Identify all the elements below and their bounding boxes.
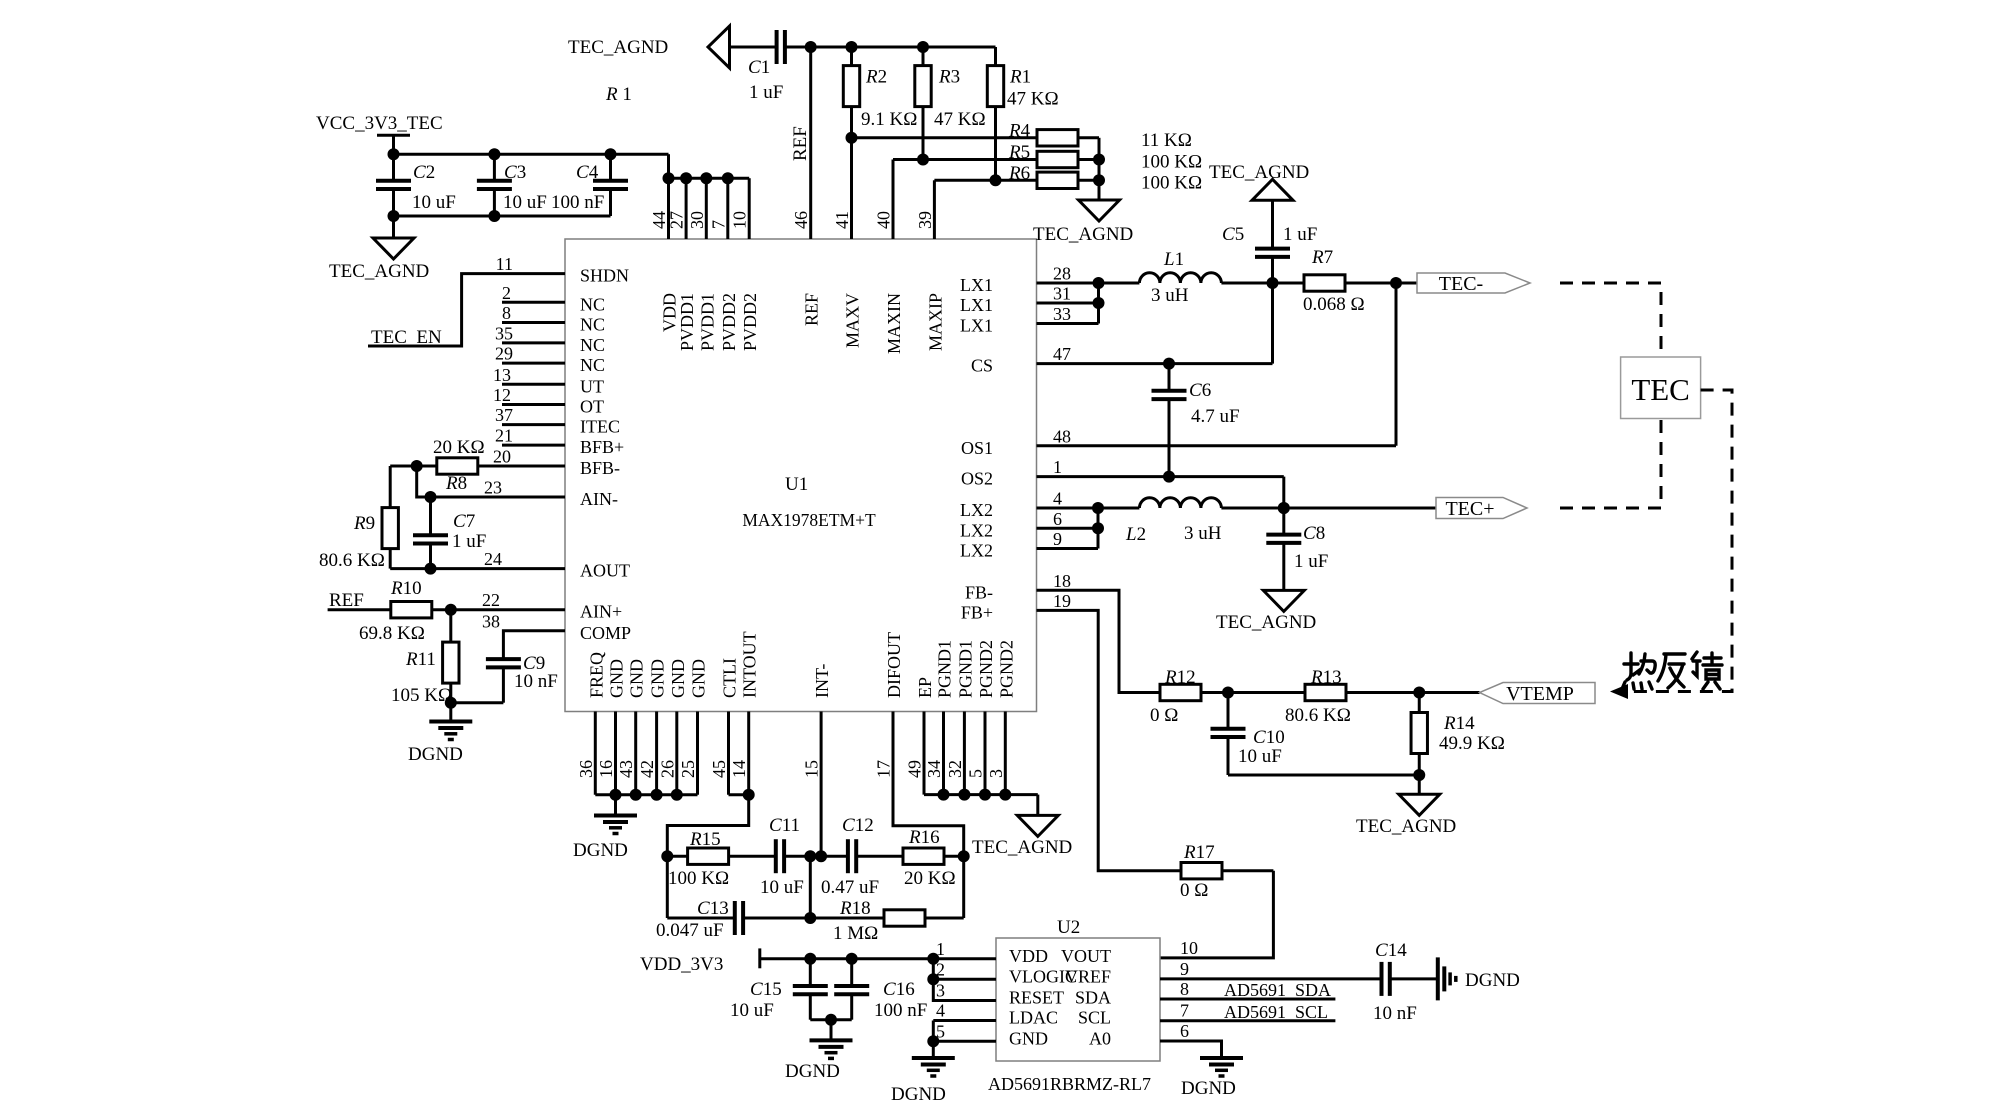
svg-text:10 uF: 10 uF [1238, 746, 1282, 767]
wire [451, 701, 504, 704]
svg-text:VCC_3V3_TEC: VCC_3V3_TEC [316, 113, 443, 134]
svg-text:C12: C12 [842, 815, 874, 836]
svg-text:R17: R17 [1183, 842, 1215, 863]
wire [390, 465, 437, 468]
svg-text:4: 4 [936, 1001, 945, 1021]
svg-text:DGND: DGND [891, 1084, 946, 1105]
junction [999, 789, 1011, 801]
wire U1 top pin [726, 178, 729, 239]
svg-text:35: 35 [495, 323, 513, 343]
resistor R18 [884, 910, 925, 926]
svg-text:100 KΩ: 100 KΩ [1141, 152, 1202, 173]
wire [1390, 977, 1438, 980]
wire dashed TEC+ to TEC [1560, 419, 1661, 509]
wire [1098, 138, 1101, 200]
svg-text:C11: C11 [769, 815, 800, 836]
capacitor C12 [846, 839, 850, 873]
wire U1 left pin stub [502, 383, 565, 386]
junction [1163, 358, 1175, 370]
svg-text:6: 6 [1180, 1021, 1189, 1041]
svg-text:31: 31 [1053, 284, 1071, 304]
junction [488, 148, 500, 160]
svg-text:R18: R18 [839, 898, 871, 919]
wire U1 gnd pin [594, 712, 597, 795]
wire [856, 855, 903, 858]
junction [388, 148, 400, 160]
wire [743, 917, 884, 920]
capacitor C2 [376, 179, 411, 183]
junction [445, 697, 457, 709]
svg-text:30: 30 [687, 211, 707, 229]
capacitor C15 [793, 984, 828, 988]
capacitor C16 [834, 984, 869, 988]
wire pin39 [933, 180, 936, 239]
wire FB- pin18 [1037, 590, 1161, 692]
svg-text:43: 43 [616, 760, 636, 778]
svg-text:AIN-: AIN- [580, 489, 618, 509]
svg-text:100 KΩ: 100 KΩ [668, 868, 729, 889]
svg-text:47 KΩ: 47 KΩ [1007, 89, 1059, 110]
svg-text:TEC_AGND: TEC_AGND [1209, 162, 1309, 183]
wire AIN+ pin22 [432, 608, 565, 611]
capacitor C6 [1152, 389, 1187, 393]
wire [850, 994, 853, 1019]
svg-text:5: 5 [966, 769, 986, 778]
wire U1 pgnd pin [984, 712, 987, 795]
svg-text:22: 22 [482, 590, 500, 610]
wire [809, 856, 812, 918]
junction [979, 789, 991, 801]
svg-text:SHDN: SHDN [580, 266, 629, 286]
TEC module box [1621, 357, 1701, 419]
svg-text:14: 14 [729, 760, 749, 778]
svg-text:CTLI: CTLI [720, 658, 740, 698]
wire OS2 pin1 [1037, 475, 1284, 478]
svg-text:80.6 KΩ: 80.6 KΩ [319, 550, 385, 571]
wire U2 pin6 [1160, 1041, 1222, 1058]
svg-text:10: 10 [730, 211, 750, 229]
svg-text:LDAC: LDAC [1009, 1008, 1058, 1028]
wire BFB- pin20 [478, 465, 565, 468]
svg-text:10 uF: 10 uF [730, 1000, 774, 1021]
svg-text:C2: C2 [413, 162, 435, 183]
wire pin40 [892, 160, 895, 240]
wire [1271, 257, 1274, 283]
resistor R15 [688, 848, 729, 864]
svg-text:9.1 KΩ: 9.1 KΩ [861, 109, 917, 130]
junction [700, 172, 712, 184]
junction [630, 789, 642, 801]
wire OS1 pin48 [1037, 444, 1397, 447]
junction [1267, 277, 1279, 289]
svg-text:PGND2: PGND2 [976, 640, 996, 698]
svg-text:100 nF: 100 nF [551, 192, 604, 213]
junction [488, 210, 500, 222]
svg-text:42: 42 [637, 760, 657, 778]
wire VDD bus [669, 177, 750, 180]
svg-text:GND: GND [648, 659, 668, 698]
wire [1345, 282, 1417, 285]
svg-text:21: 21 [495, 426, 513, 446]
junction [605, 148, 617, 160]
ground DGND [810, 1038, 853, 1042]
wire [1168, 399, 1171, 477]
junction [722, 172, 734, 184]
junction [1278, 502, 1290, 514]
svg-text:INT-: INT- [812, 664, 832, 698]
svg-text:69.8 KΩ: 69.8 KΩ [359, 623, 425, 644]
svg-text:49.9 KΩ: 49.9 KΩ [1439, 733, 1505, 754]
wire U2 pin5 [933, 1021, 996, 1042]
wire VCC bus [394, 153, 669, 156]
wire U1 top pin [667, 178, 670, 239]
svg-text:R3: R3 [938, 67, 960, 88]
svg-text:TEC: TEC [1631, 372, 1690, 407]
wire U2 pin2 [933, 978, 996, 981]
node TEC- [1417, 273, 1530, 293]
svg-text:LX1: LX1 [960, 275, 993, 295]
op-amp U1 MAX1978ETM+T body [565, 239, 1037, 712]
svg-text:TEC_AGND: TEC_AGND [568, 37, 668, 58]
wire [392, 189, 395, 216]
svg-text:DGND: DGND [573, 840, 628, 861]
svg-text:C1: C1 [748, 57, 770, 78]
wire [429, 544, 432, 569]
wire [502, 667, 505, 702]
svg-text:C13: C13 [697, 898, 729, 919]
wire PGND bus [924, 793, 1038, 796]
svg-text:39: 39 [915, 211, 935, 229]
wire [1271, 200, 1274, 248]
svg-text:R14: R14 [1443, 713, 1475, 734]
svg-text:47: 47 [1053, 344, 1071, 364]
wire CS pin47 [1037, 362, 1273, 365]
svg-text:3 uH: 3 uH [1184, 523, 1222, 544]
svg-text:FB-: FB- [965, 582, 993, 602]
wire [1282, 543, 1285, 591]
svg-text:GND: GND [689, 659, 709, 698]
svg-text:0.068 Ω: 0.068 Ω [1303, 294, 1365, 315]
wire AOUT pin24 [390, 567, 565, 570]
svg-text:24: 24 [484, 549, 502, 569]
svg-text:DGND: DGND [1465, 970, 1520, 991]
junction [846, 41, 858, 53]
wire [730, 46, 777, 49]
junction [1093, 174, 1105, 186]
svg-text:C16: C16 [883, 979, 915, 1000]
svg-text:GND: GND [627, 659, 647, 698]
junction [1413, 687, 1425, 699]
svg-text:1 uF: 1 uF [452, 531, 486, 552]
svg-text:PGND1: PGND1 [955, 640, 975, 698]
svg-text:OS2: OS2 [961, 469, 993, 489]
svg-text:PGND1: PGND1 [935, 640, 955, 698]
junction [743, 789, 755, 801]
svg-text:100 KΩ: 100 KΩ [1141, 173, 1202, 194]
wire LX1 pin33 [1037, 322, 1099, 325]
svg-text:105 KΩ: 105 KΩ [391, 685, 452, 706]
svg-text:PVDD1: PVDD1 [677, 293, 697, 351]
svg-text:16: 16 [596, 760, 616, 778]
wire TEC_EN to SHDN [368, 274, 565, 346]
wire [1097, 508, 1100, 549]
svg-text:1 uF: 1 uF [749, 82, 783, 103]
wire U1 left pin stub [502, 444, 565, 447]
wire [729, 855, 776, 858]
resistor R13 [1305, 684, 1346, 700]
svg-text:R15: R15 [689, 829, 721, 850]
svg-text:41: 41 [832, 211, 852, 229]
wire U1 gnd pin [614, 712, 617, 795]
wire [1036, 795, 1039, 816]
svg-text:LX2: LX2 [960, 520, 993, 540]
svg-text:10 uF: 10 uF [412, 192, 456, 213]
svg-text:0.47 uF: 0.47 uF [821, 877, 879, 898]
svg-text:UT: UT [580, 376, 604, 396]
ground DGND [594, 814, 637, 818]
wire U2 pin9 VREF [1160, 977, 1382, 980]
svg-text:AD5691RBRMZ-RL7: AD5691RBRMZ-RL7 [988, 1074, 1151, 1094]
capacitor C1 [775, 30, 779, 64]
wire [429, 497, 432, 535]
svg-text:NC: NC [580, 294, 605, 314]
svg-text:MAXV: MAXV [843, 293, 863, 348]
svg-text:TEC_AGND: TEC_AGND [972, 837, 1072, 858]
svg-text:R8: R8 [445, 473, 467, 494]
arrowhead thermal feedback [1610, 684, 1628, 699]
svg-text:34: 34 [924, 760, 944, 778]
wire [609, 154, 612, 181]
svg-text:VDD: VDD [1009, 946, 1048, 966]
junction [661, 850, 673, 862]
svg-text:A0: A0 [1089, 1028, 1111, 1048]
svg-text:R9: R9 [353, 513, 375, 534]
junction [651, 789, 663, 801]
svg-text:10 nF: 10 nF [1373, 1003, 1417, 1024]
resistor R5 [1037, 151, 1078, 167]
svg-text:C5: C5 [1222, 224, 1244, 245]
junction [804, 912, 816, 924]
svg-text:40: 40 [874, 211, 894, 229]
junction [927, 973, 939, 985]
wire U1 left pin stub [502, 341, 565, 344]
wire DIFOUT loop [893, 712, 964, 919]
svg-text:100 nF: 100 nF [874, 1000, 927, 1021]
svg-text:9: 9 [1180, 959, 1189, 979]
wire [944, 855, 964, 858]
wire [609, 189, 612, 216]
svg-text:12: 12 [493, 385, 511, 405]
svg-text:23: 23 [484, 478, 502, 498]
svg-text:LX1: LX1 [960, 316, 993, 336]
wire [1201, 691, 1305, 694]
wire [389, 549, 392, 569]
wire VDD_3V3 rail [760, 957, 996, 960]
junction [958, 850, 970, 862]
svg-text:SCL: SCL [1078, 1008, 1111, 1028]
ground DGND [1200, 1056, 1243, 1060]
junction [425, 491, 437, 503]
wire [1097, 283, 1100, 324]
svg-text:INTOUT: INTOUT [740, 631, 760, 698]
wire R4 row [852, 136, 1038, 139]
wire LX2 pin6 [1037, 527, 1099, 530]
svg-text:REF: REF [790, 126, 811, 161]
svg-text:18: 18 [1053, 571, 1071, 591]
capacitor C11 [774, 839, 778, 873]
svg-text:19: 19 [1053, 591, 1071, 611]
svg-text:1 uF: 1 uF [1294, 551, 1328, 572]
svg-text:7: 7 [708, 220, 728, 229]
wire [1418, 754, 1421, 795]
svg-text:0.047 uF: 0.047 uF [656, 920, 724, 941]
svg-text:10 uF: 10 uF [503, 192, 547, 213]
svg-text:7: 7 [1180, 1001, 1189, 1021]
wire [667, 917, 735, 920]
wire [994, 47, 997, 66]
svg-text:20 KΩ: 20 KΩ [904, 868, 956, 889]
svg-text:0 Ω: 0 Ω [1150, 705, 1178, 726]
wire U1 top pin [705, 178, 708, 239]
resistor R4 [1037, 130, 1078, 146]
svg-text:VREF: VREF [1065, 966, 1111, 986]
wire R5 row [893, 158, 1037, 161]
wire [1227, 693, 1230, 729]
svg-text:C6: C6 [1189, 380, 1211, 401]
wire U1 gnd pin [634, 712, 637, 795]
svg-text:L2: L2 [1125, 524, 1146, 545]
svg-text:COMP: COMP [580, 623, 631, 643]
capacitor C14 [1380, 962, 1384, 996]
svg-text:3 uH: 3 uH [1151, 285, 1189, 306]
resistor R3 [915, 66, 931, 107]
svg-text:47 KΩ: 47 KΩ [934, 109, 986, 130]
wire GND bus [595, 793, 697, 796]
svg-text:LX2: LX2 [960, 541, 993, 561]
resistor R10 [391, 602, 432, 618]
inductor L2 [1139, 498, 1221, 508]
wire [925, 917, 964, 920]
svg-text:ITEC: ITEC [580, 417, 620, 437]
svg-text:VTEMP: VTEMP [1506, 683, 1574, 705]
wire [614, 795, 617, 816]
capacitor C10 [1211, 727, 1246, 731]
wire LX1 pin31 [1037, 302, 1099, 305]
svg-text:RESET: RESET [1009, 988, 1064, 1008]
wire cap gnd bus [394, 215, 611, 218]
junction [388, 210, 400, 222]
svg-text:LX1: LX1 [960, 295, 993, 315]
junction [917, 41, 929, 53]
svg-text:TEC_AGND: TEC_AGND [1356, 816, 1456, 837]
svg-text:1: 1 [1053, 457, 1062, 477]
svg-text:R11: R11 [405, 649, 436, 670]
wire INT- pin15 [820, 712, 823, 857]
junction [805, 41, 817, 53]
svg-text:R7: R7 [1311, 247, 1333, 268]
svg-text:29: 29 [495, 344, 513, 364]
svg-text:TEC_AGND: TEC_AGND [1033, 224, 1133, 245]
svg-text:GND: GND [607, 659, 627, 698]
capacitor C8 [1266, 533, 1301, 537]
svg-text:EP: EP [915, 677, 935, 698]
wire U1 pgnd pin [1004, 712, 1007, 795]
resistor R16 [903, 848, 944, 864]
wire R6 row [934, 179, 1037, 182]
op-amp U2 AD5691RBRMZ-RL7 body [996, 938, 1160, 1061]
svg-text:C14: C14 [1375, 940, 1407, 961]
svg-text:46: 46 [791, 211, 811, 229]
junction [1390, 277, 1402, 289]
svg-text:9: 9 [1053, 529, 1062, 549]
svg-text:32: 32 [945, 760, 965, 778]
wire [1221, 282, 1304, 285]
svg-text:R10: R10 [390, 578, 422, 599]
ground TEC_AGND [373, 238, 414, 259]
junction [804, 850, 816, 862]
svg-text:DIFOUT: DIFOUT [884, 632, 904, 698]
capacitor C4 [593, 179, 628, 183]
wire dashed TEC- to TEC [1560, 283, 1661, 357]
junction [938, 789, 950, 801]
svg-text:DGND: DGND [408, 744, 463, 765]
wire LX1 pin28 [1037, 282, 1140, 285]
svg-text:13: 13 [493, 365, 511, 385]
wire [1222, 869, 1273, 872]
capacitor C13 [733, 901, 737, 935]
ground TEC_AGND [1017, 815, 1058, 836]
svg-text:PVDD2: PVDD2 [740, 293, 760, 351]
junction [425, 563, 437, 575]
svg-text:LX2: LX2 [960, 500, 993, 520]
svg-text:CS: CS [971, 356, 993, 376]
svg-text:FB+: FB+ [961, 602, 993, 622]
ground TEC_AGND (left) [708, 26, 730, 68]
wire [809, 994, 812, 1019]
wire AIN- pin23 [417, 466, 565, 497]
junction [663, 172, 675, 184]
svg-text:SDA: SDA [1075, 988, 1111, 1008]
wire [850, 959, 853, 986]
svg-text:11 KΩ: 11 KΩ [1141, 130, 1192, 151]
resistor R1 [987, 66, 1003, 107]
svg-text:38: 38 [482, 611, 500, 631]
svg-text:TEC+: TEC+ [1445, 498, 1494, 520]
wire [830, 1020, 833, 1041]
svg-text:R2: R2 [865, 67, 887, 88]
svg-text:BFB+: BFB+ [580, 437, 624, 457]
svg-text:4.7 uF: 4.7 uF [1191, 406, 1240, 427]
svg-text:28: 28 [1053, 264, 1071, 284]
wire [1078, 179, 1099, 182]
junction [411, 460, 423, 472]
wire U1 gnd pin [696, 712, 699, 795]
wire LX2 pin4 [1037, 507, 1140, 510]
svg-text:15: 15 [802, 760, 822, 778]
wire U1 top pin [748, 178, 751, 239]
wire FB+ pin19 [1037, 610, 1182, 870]
svg-text:11: 11 [496, 254, 513, 274]
wire R17 to U2 pin10 [1160, 871, 1273, 958]
resistor R11 [443, 642, 459, 683]
svg-text:PVDD2: PVDD2 [719, 293, 739, 351]
junction [1092, 522, 1104, 534]
wire [1168, 364, 1171, 391]
svg-text:C7: C7 [453, 511, 475, 532]
wire [1418, 693, 1421, 713]
svg-text:1 uF: 1 uF [1283, 224, 1317, 245]
label 热反馈 (thermal feedback) [1622, 652, 1722, 689]
